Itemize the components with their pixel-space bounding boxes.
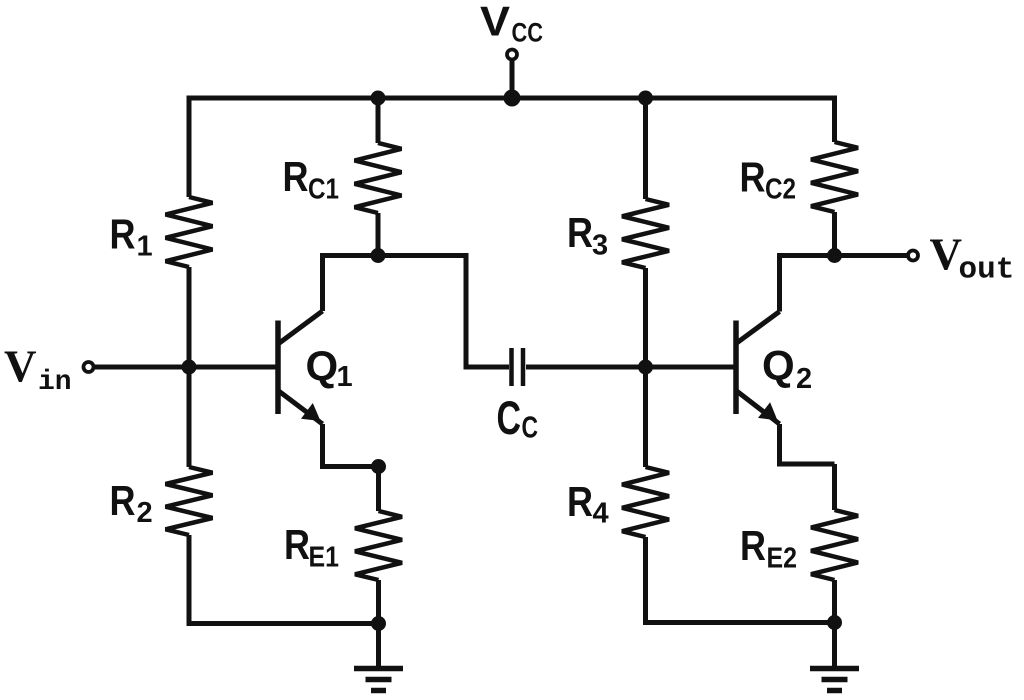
- node collector Q1: [371, 248, 386, 263]
- node rail-R3: [638, 91, 653, 106]
- terminal Vout: [908, 251, 918, 261]
- node CC-R3-R4-base: [638, 360, 653, 375]
- svg-text:V: V: [4, 342, 37, 392]
- wire Vin to Q1 base: [95, 365, 278, 370]
- resistor R4: [622, 467, 669, 537]
- svg-text:1: 1: [337, 361, 353, 393]
- wire VCC stub: [510, 61, 515, 98]
- svg-text:Q: Q: [306, 343, 339, 390]
- wire R3 top drop: [643, 98, 648, 199]
- wire RE1 top: [376, 467, 381, 512]
- resistor R2: [166, 467, 213, 535]
- transistor Q1: [278, 311, 379, 467]
- svg-text:out: out: [959, 253, 1015, 288]
- wire RE2 top drop: [832, 464, 837, 510]
- resistor RC1: [355, 143, 402, 213]
- resistor R3: [622, 199, 669, 268]
- node Vin-R1-R2: [182, 360, 197, 375]
- svg-text:R: R: [567, 209, 593, 256]
- svg-text:3: 3: [592, 230, 608, 262]
- terminal Vin: [84, 362, 94, 372]
- wire collector row Q1 to capacitor: [323, 256, 510, 368]
- svg-text:E2: E2: [767, 543, 798, 575]
- node RE1-ground: [371, 616, 386, 631]
- wire RE2 bottom: [832, 580, 837, 623]
- resistor RE1: [355, 511, 402, 580]
- wire mid node to Q2 base: [646, 365, 737, 370]
- wire R4 top: [643, 367, 648, 467]
- svg-text:CC: CC: [512, 18, 544, 48]
- ground (right): [810, 669, 859, 691]
- wire R1 bottom to R2 top: [187, 267, 192, 467]
- node Vout: [827, 248, 842, 263]
- capacitor CC: [512, 348, 524, 386]
- svg-text:C2: C2: [765, 174, 796, 206]
- svg-text:C: C: [522, 411, 539, 445]
- svg-text:R: R: [110, 477, 136, 524]
- node rail-VCC: [504, 90, 521, 107]
- node rail-RC1: [371, 91, 386, 106]
- wire Vout node to terminal: [835, 253, 907, 258]
- svg-text:C1: C1: [308, 174, 339, 206]
- wire RE1 bottom: [376, 580, 381, 624]
- wire capacitor to mid node: [526, 365, 646, 370]
- svg-text:R: R: [284, 521, 310, 568]
- svg-text:R: R: [740, 522, 766, 569]
- node RE2-ground: [827, 615, 842, 630]
- svg-text:1: 1: [137, 231, 153, 263]
- svg-text:V: V: [930, 230, 963, 280]
- resistor RE2: [811, 510, 858, 580]
- ground (left): [354, 669, 403, 691]
- svg-text:R: R: [110, 211, 136, 258]
- terminal VCC: [507, 50, 517, 60]
- resistor R1: [166, 197, 213, 267]
- wire R3 bottom to mid node: [643, 268, 648, 367]
- svg-text:R: R: [283, 153, 309, 200]
- wire ground stub right: [832, 623, 837, 667]
- node emitter Q1-RE1: [371, 459, 386, 474]
- svg-text:R: R: [567, 478, 593, 525]
- svg-text:V: V: [480, 0, 510, 45]
- wire R4 bottom and bottom-right rail: [646, 537, 835, 623]
- svg-text:C: C: [497, 391, 522, 444]
- wire top rail with left and right drops: [189, 98, 835, 197]
- svg-text:2: 2: [137, 497, 153, 529]
- svg-text:Q: Q: [762, 342, 795, 389]
- svg-text:E1: E1: [309, 542, 340, 574]
- wire RC1 bottom to collector node: [376, 213, 381, 256]
- svg-text:in: in: [38, 367, 72, 398]
- wire ground stub left: [376, 624, 381, 667]
- resistor RC2: [811, 142, 858, 212]
- wire RC2 bottom to Vout node: [832, 212, 837, 256]
- wire R2 bottom and bottom-left rail: [189, 535, 379, 624]
- wire RC1 top drop: [376, 98, 381, 143]
- svg-text:2: 2: [796, 363, 812, 395]
- svg-text:R: R: [740, 154, 766, 201]
- svg-text:4: 4: [593, 498, 609, 530]
- transistor Q2: [736, 256, 835, 465]
